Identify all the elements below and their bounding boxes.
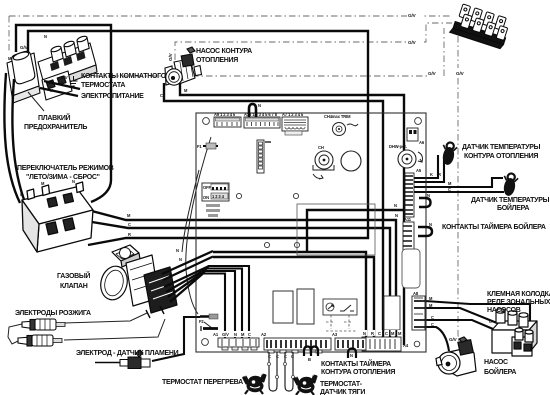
svg-text:A11: A11 (404, 217, 412, 222)
relay box 3 (384, 296, 400, 330)
ignition electrodes (18, 319, 65, 346)
switch lugs (27, 189, 35, 200)
wire gas valve band to A1 pin GV (202, 274, 225, 345)
wire L power to mode switch via x111 (16, 25, 111, 202)
earth faston terminal block (450, 3, 512, 49)
svg-text:CH: CH (318, 145, 324, 150)
wire gas valve bundle to A4 R (213, 257, 374, 345)
svg-text:C: C (448, 187, 451, 192)
transformer outline on PCB (297, 204, 375, 255)
wire flame electrode to fuse F2 (152, 317, 200, 361)
connector A8 (412, 291, 425, 331)
svg-text:КОНТУРА ОТОПЛЕНИЯ: КОНТУРА ОТОПЛЕНИЯ (321, 369, 395, 376)
wire N power top run to switch R terminal via x368 (28, 31, 368, 245)
room thermostat contact wire 2 (40, 88, 78, 96)
DIP legend tiny text (206, 204, 220, 217)
fuse F1 (197, 143, 218, 149)
svg-text:G/V: G/V (408, 13, 417, 18)
svg-text:ЭЛЕКТРОД - ДАТЧИК ПЛАМЕНИ: ЭЛЕКТРОД - ДАТЧИК ПЛАМЕНИ (76, 350, 179, 357)
svg-text:G/V: G/V (408, 40, 417, 45)
potentiometer CH4max TRIM (324, 114, 358, 136)
PCB mounting holes (202, 118, 422, 347)
wire C mode switch to A4 (86, 221, 390, 345)
connector A3 (332, 332, 366, 350)
svg-text:"ЛЕТО/ЗИМА - СБРОС": "ЛЕТО/ЗИМА - СБРОС" (26, 174, 100, 181)
boiler pump (436, 337, 476, 376)
node G/V label top (407, 10, 424, 19)
node G/V label third (427, 68, 443, 77)
svg-text:C: C (160, 93, 163, 98)
connector A6 (407, 128, 425, 145)
svg-text:ЭЛЕКТРОДЫ РОЗЖИГА: ЭЛЕКТРОДЫ РОЗЖИГА (15, 310, 91, 317)
SIL header (257, 140, 271, 173)
room thermostat contact wire 1 (44, 81, 80, 89)
power supply terminal block (7, 35, 97, 103)
svg-text:ГАЗОВЫЙ: ГАЗОВЫЙ (57, 271, 90, 280)
svg-text:ТЕРМОСТАТА: ТЕРМОСТАТА (81, 82, 125, 89)
svg-text:ПЕРЕКЛЮЧАТЕЛЬ РЕЖИМОВ: ПЕРЕКЛЮЧАТЕЛЬ РЕЖИМОВ (17, 165, 114, 172)
svg-text:ДАТЧИК ТЕМПЕРАТУРЫ: ДАТЧИК ТЕМПЕРАТУРЫ (462, 144, 541, 151)
node G/V label second (407, 37, 424, 46)
wire A8 M to zone relay (425, 308, 497, 323)
svg-text:R: R (128, 232, 131, 237)
loop wire node dots (268, 363, 295, 379)
svg-text:ТЕРМОСТАТ-: ТЕРМОСТАТ- (320, 381, 363, 388)
svg-text:A4: A4 (403, 343, 409, 348)
wire thin arc from A9 to valve coil (186, 137, 211, 314)
wire gas valve band to A1 pin C (208, 266, 249, 344)
connector A11 (403, 217, 414, 251)
svg-text:DHW-pot.: DHW-pot. (389, 144, 407, 149)
connector A1 (213, 331, 259, 350)
svg-text:G/V: G/V (60, 75, 69, 80)
ground G/V net from pump to earth block (175, 23, 452, 60)
jumper loops at A2 with B (304, 347, 318, 363)
wire A5 M to DHW sensor (414, 178, 503, 187)
svg-text:ON: ON (203, 195, 209, 200)
svg-text:C: C (248, 332, 251, 337)
potentiometer DHW (389, 144, 423, 168)
zone pumps relay terminal block (492, 309, 537, 356)
svg-text:ОТОПЛЕНИЯ: ОТОПЛЕНИЯ (196, 57, 238, 64)
wire M mode switch to A4 (88, 210, 396, 345)
connector A7 (282, 112, 308, 135)
svg-text:A3: A3 (332, 332, 338, 337)
fuse F2 (199, 314, 218, 331)
svg-text:N: N (44, 34, 47, 39)
gas valve cable bundle (162, 251, 213, 302)
svg-text:ДАТЧИК ТЯГИ: ДАТЧИК ТЯГИ (320, 389, 365, 395)
svg-text:РЕЛЕ ЗОНАЛЬНЫХ: РЕЛЕ ЗОНАЛЬНЫХ (487, 299, 550, 306)
svg-text:НАСОСОВ: НАСОСОВ (487, 307, 521, 314)
svg-text:K: K (430, 172, 433, 177)
svg-text:КОНТУРА ОТОПЛЕНИЯ: КОНТУРА ОТОПЛЕНИЯ (464, 153, 538, 160)
wire gas valve bundle to A4 N (213, 252, 366, 345)
CH temperature sensor NTC (440, 141, 458, 166)
power feed curved wire 1 (4, 73, 20, 203)
connector A4 (362, 330, 409, 351)
svg-text:C: C (489, 319, 492, 324)
wire A5 R to CH sensor (414, 158, 444, 182)
connector A10 with N jumper loop (244, 103, 280, 128)
connector A5 (405, 168, 422, 217)
screw terminals (50, 35, 89, 62)
svg-text:C: C (385, 331, 388, 336)
svg-text:КОНТАКТЫ ТАЙМЕРА БОЙЛЕРА: КОНТАКТЫ ТАЙМЕРА БОЙЛЕРА (442, 222, 546, 231)
svg-text:A6: A6 (419, 140, 425, 145)
strip dark separators (50, 51, 86, 71)
wire M CH pump to A4 (180, 83, 404, 345)
svg-text:N: N (350, 353, 353, 358)
svg-text:C: C (431, 315, 434, 320)
timer contact box (323, 299, 357, 331)
ground G/V net from power block to earth block (80, 28, 444, 76)
svg-text:БОЙЛЕРА: БОЙЛЕРА (484, 367, 516, 376)
wire A8 M to zone relay right block (425, 301, 530, 334)
svg-text:N: N (234, 332, 237, 337)
svg-text:КЛАПАН: КЛАПАН (60, 283, 88, 290)
jumper loop at A5 with N (419, 193, 431, 207)
svg-text:ДАТЧИК ТЕМПЕРАТУРЫ: ДАТЧИК ТЕМПЕРАТУРЫ (471, 197, 550, 204)
svg-text:N: N (429, 222, 432, 227)
wire N gas valve to A5 via x307 (307, 210, 409, 253)
connector A9 (214, 112, 241, 127)
PCB board outline (196, 113, 426, 352)
wire C CH pump to A4 (164, 83, 383, 345)
svg-text:G/V: G/V (428, 71, 437, 76)
filter rounded box on PCB right (402, 249, 420, 288)
potentiometer CH (313, 145, 334, 179)
svg-text:КОНТАКТЫ ТАЙМЕРА: КОНТАКТЫ ТАЙМЕРА (321, 359, 391, 368)
svg-text:R: R (371, 331, 374, 336)
svg-text:G/V: G/V (456, 71, 465, 76)
svg-text:G/V: G/V (20, 45, 29, 50)
fuse holder body (7, 53, 39, 96)
svg-text:R: R (438, 172, 441, 177)
boundary dash-dot frame left (8, 16, 10, 52)
ground symbol near power block (70, 76, 78, 86)
svg-text:A8: A8 (413, 291, 419, 296)
wire thin arc second (182, 170, 199, 252)
svg-text:G/V: G/V (449, 337, 458, 342)
svg-text:ТЕРМОСТАТ ПЕРЕГРЕВА: ТЕРМОСТАТ ПЕРЕГРЕВА (162, 379, 243, 386)
overheat thermostat symbol (242, 371, 267, 395)
thermostat loop wires from A2 pair 1 (269, 352, 277, 391)
svg-text:CH4max TRIM: CH4max TRIM (324, 114, 351, 119)
svg-text:B: B (308, 357, 311, 362)
jumper loop at A3 with N (348, 349, 356, 359)
DIP switch block (202, 183, 229, 201)
knob blank circle (341, 151, 361, 171)
terminal strip body (38, 43, 96, 84)
svg-text:N: N (176, 248, 179, 253)
svg-text:N: N (258, 103, 261, 108)
jumper loop at A11 with N (418, 222, 432, 236)
wire gas valve band to A1 pin N (204, 271, 235, 344)
wire A8 C to zone relay (425, 320, 493, 329)
svg-text:C: C (128, 222, 131, 227)
draft thermostat symbol (293, 372, 318, 395)
gas valve (97, 245, 177, 318)
boundary dash-dot frame top (9, 15, 450, 17)
svg-text:N: N (427, 193, 430, 198)
svg-text:НАСОС КОНТУРА: НАСОС КОНТУРА (196, 48, 252, 55)
svg-text:G/V: G/V (222, 332, 229, 337)
svg-text:КЛЕМНАЯ КОЛОДКА: КЛЕМНАЯ КОЛОДКА (487, 291, 550, 298)
connector A2 (261, 332, 331, 359)
DHW temperature sensor NTC (501, 172, 519, 197)
svg-text:A7 1 2 3 4 5: A7 1 2 3 4 5 (282, 112, 304, 117)
svg-text:ПРЕДОХРАНИТЕЛЬ: ПРЕДОХРАНИТЕЛЬ (24, 124, 87, 131)
svg-text:C: C (20, 192, 23, 197)
svg-text:C: C (431, 322, 434, 327)
svg-text:ЭЛЕКТРОПИТАНИЕ: ЭЛЕКТРОПИТАНИЕ (81, 93, 144, 100)
relay box 1 (273, 291, 293, 323)
svg-text:A2: A2 (261, 332, 267, 337)
svg-text:1 2 3 4: 1 2 3 4 (212, 194, 225, 199)
node G/V label fourth (455, 68, 471, 77)
svg-text:C: C (378, 331, 381, 336)
mode switch summer/winter (22, 182, 93, 252)
flame sensor electrode (95, 350, 150, 369)
lower terminal sub-block (42, 71, 72, 100)
svg-text:OFF: OFF (203, 185, 211, 190)
svg-text:N: N (395, 213, 398, 218)
wire ignition electrode lower (64, 319, 165, 340)
svg-text:ПЛАВКИЙ: ПЛАВКИЙ (38, 113, 71, 122)
CH heating pump (165, 47, 202, 85)
relay box 2 (297, 289, 314, 324)
wire ignition electrode upper (64, 313, 147, 323)
wire A5 K to CH sensor (414, 155, 438, 178)
svg-text:N: N (394, 203, 397, 208)
svg-text:A5: A5 (416, 168, 422, 173)
svg-text:КОНТАКТЫ КОМНАТНОГО: КОНТАКТЫ КОМНАТНОГО (81, 73, 167, 80)
wire gas valve band to A1 pin M (206, 269, 242, 345)
wire A5 C to DHW sensor (414, 191, 504, 193)
wire A8 C to boiler pump (425, 327, 449, 351)
electrode tip bracket (8, 324, 22, 344)
svg-text:НАСОС: НАСОС (484, 359, 508, 366)
thermostat loop wires from A2 pair 2 (285, 352, 293, 391)
fuse leader line (28, 92, 44, 111)
svg-text:N: N (363, 331, 366, 336)
power feed curved wire 2 (12, 79, 28, 210)
ground G/V long vertical to boiler pump (458, 36, 462, 348)
svg-text:БОЙЛЕРА: БОЙЛЕРА (497, 203, 529, 212)
svg-text:A9 1 2 3 4 5: A9 1 2 3 4 5 (214, 112, 236, 117)
svg-text:N: N (179, 257, 182, 262)
svg-text:A1: A1 (213, 332, 219, 337)
svg-text:G/V: G/V (168, 52, 173, 61)
